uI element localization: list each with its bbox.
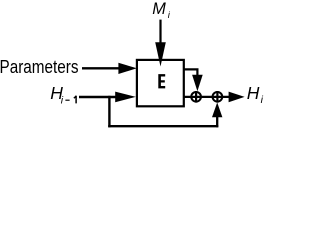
- xor gate XOR1 vertical bar: [195, 91, 197, 103]
- wire tap from block E top right: [184, 69, 197, 75]
- arrowhead Parameters into block E: [118, 63, 136, 74]
- wire feedback branch down: [108, 96, 110, 128]
- block E (encryption box): [137, 60, 184, 106]
- wire feedback bottom run: [108, 125, 218, 127]
- wire Parameters input: [82, 67, 120, 69]
- label H_i-1: [50, 83, 76, 107]
- arrowhead H_i-1 into block E: [115, 92, 136, 103]
- xor gate XOR2 vertical bar: [216, 91, 218, 103]
- label H_i: [247, 83, 264, 106]
- arrowhead tap into XOR1: [192, 75, 203, 92]
- xor gate XOR1 circle: [191, 92, 201, 102]
- svg-text:Parameters: Parameters: [0, 57, 79, 77]
- wire M_i input shaft: [159, 20, 161, 43]
- wire H_i-1 input: [79, 96, 117, 99]
- label M_i: [152, 0, 171, 21]
- label E: [158, 74, 165, 88]
- arrowhead M_i into block E: [155, 42, 166, 66]
- wire output row through XORs: [184, 96, 230, 98]
- xor gate XOR2 circle: [213, 92, 223, 102]
- wire feedback up into XOR2: [216, 117, 218, 128]
- svg-text:H: H: [247, 83, 260, 103]
- svg-text:M: M: [152, 0, 166, 18]
- arrowhead feedback into XOR2: [212, 103, 222, 118]
- arrowhead output to H_i: [229, 92, 245, 103]
